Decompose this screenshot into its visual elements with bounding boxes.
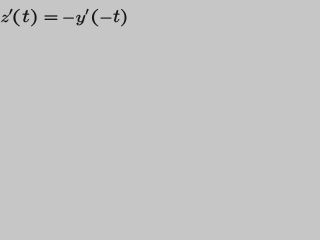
equals sign	[45, 16, 57, 20]
prime on z	[9, 9, 12, 15]
right parenthesis (second)	[121, 9, 126, 26]
prime on y	[86, 9, 89, 15]
variable z	[1, 15, 9, 22]
right parenthesis (first)	[31, 9, 36, 26]
left parenthesis (first)	[14, 9, 20, 26]
variable y	[76, 15, 85, 25]
minus sign (inside parentheses)	[101, 17, 112, 20]
variable t (first)	[23, 10, 30, 22]
variable t (second)	[114, 10, 120, 22]
left parenthesis (second)	[92, 9, 98, 26]
minus sign (negation)	[63, 17, 73, 20]
